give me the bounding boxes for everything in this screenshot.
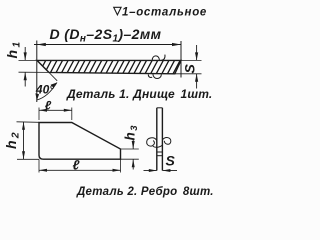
svg-text:h3: h3 bbox=[123, 124, 141, 141]
svg-text:Деталь 1. Днище 1шт.: Деталь 1. Днище 1шт. bbox=[66, 87, 212, 101]
svg-text:ℓ: ℓ bbox=[45, 99, 52, 113]
svg-text:1–остальное: 1–остальное bbox=[122, 6, 207, 18]
svg-text:ℓ: ℓ bbox=[73, 157, 81, 172]
svg-text:40°: 40° bbox=[35, 83, 54, 97]
svg-text:D (Dн–2S1)–2мм: D (Dн–2S1)–2мм bbox=[50, 26, 162, 45]
svg-text:Деталь 2. Ребро 8шт.: Деталь 2. Ребро 8шт. bbox=[76, 186, 214, 198]
svg-text:h2: h2 bbox=[3, 130, 22, 149]
svg-text:S: S bbox=[166, 153, 176, 169]
svg-text:S: S bbox=[182, 64, 198, 74]
svg-text:h1: h1 bbox=[4, 39, 23, 58]
